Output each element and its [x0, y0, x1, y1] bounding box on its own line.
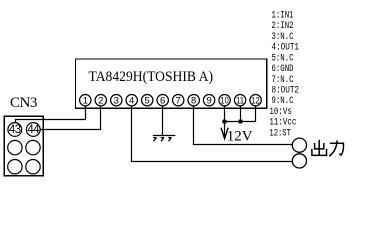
IC U1 body box TA8429H: [75, 59, 266, 108]
label output kanji 出: [312, 140, 327, 156]
svg-text:12: 12: [252, 95, 260, 106]
pin 7: [173, 95, 184, 107]
junction square pin11: [239, 120, 243, 124]
CN3 pin row2 left: [8, 140, 22, 154]
svg-text:1: 1: [83, 95, 88, 106]
wire pin8 to output top: [194, 106, 293, 145]
svg-text:CN3: CN3: [10, 95, 37, 111]
pin 4: [126, 95, 137, 107]
svg-text:11: 11: [236, 95, 244, 106]
output terminal top: [292, 138, 306, 152]
pin 2: [95, 95, 106, 107]
pin 11: [234, 95, 245, 107]
label output kanji 力: [329, 140, 343, 156]
CN3 pin 44: [26, 123, 40, 137]
wire pin11: [240, 106, 242, 122]
pin 9: [203, 95, 214, 107]
svg-text:7: 7: [176, 95, 181, 106]
pin 6: [157, 95, 168, 107]
pin 10: [219, 95, 230, 107]
connector CN3 box: [4, 116, 43, 176]
svg-text:10: 10: [221, 95, 229, 106]
wire pin6 to ground: [162, 106, 164, 136]
wire pin4 to output bottom: [132, 106, 293, 162]
supply arrow head 12V: [221, 128, 228, 139]
svg-text:43: 43: [9, 124, 21, 136]
wire pin1 to CN3-43: [16, 106, 86, 123]
CN3 pin 43: [8, 123, 22, 137]
svg-text:44: 44: [27, 124, 40, 136]
svg-text:5: 5: [145, 95, 150, 106]
wire pin2 to CN3-44: [40, 106, 100, 130]
pin 5: [142, 95, 153, 107]
svg-text:TA8429H(TOSHIB A): TA8429H(TOSHIB A): [89, 69, 214, 85]
svg-text:3: 3: [114, 95, 119, 106]
pin 8: [188, 95, 199, 107]
svg-text:12V: 12V: [227, 128, 253, 144]
svg-text:6: 6: [160, 95, 165, 106]
CN3 pin row2 right: [26, 140, 40, 154]
wire pin12 to supply rail: [225, 106, 256, 122]
junction dot pin10: [222, 119, 227, 124]
pin 3: [111, 95, 122, 107]
ground symbol: [153, 136, 175, 142]
CN3 pin row3 left: [8, 160, 22, 174]
svg-text:8: 8: [191, 95, 196, 106]
pin 12: [250, 95, 261, 107]
output terminal bottom: [292, 154, 306, 168]
pin 1: [80, 95, 91, 107]
svg-text:2: 2: [98, 95, 103, 106]
CN3 pin row3 right: [26, 160, 40, 174]
wire pin10 supply: [224, 106, 226, 138]
svg-text:12:ST: 12:ST: [269, 127, 291, 139]
svg-text:9: 9: [206, 95, 211, 106]
svg-text:4: 4: [129, 95, 134, 106]
